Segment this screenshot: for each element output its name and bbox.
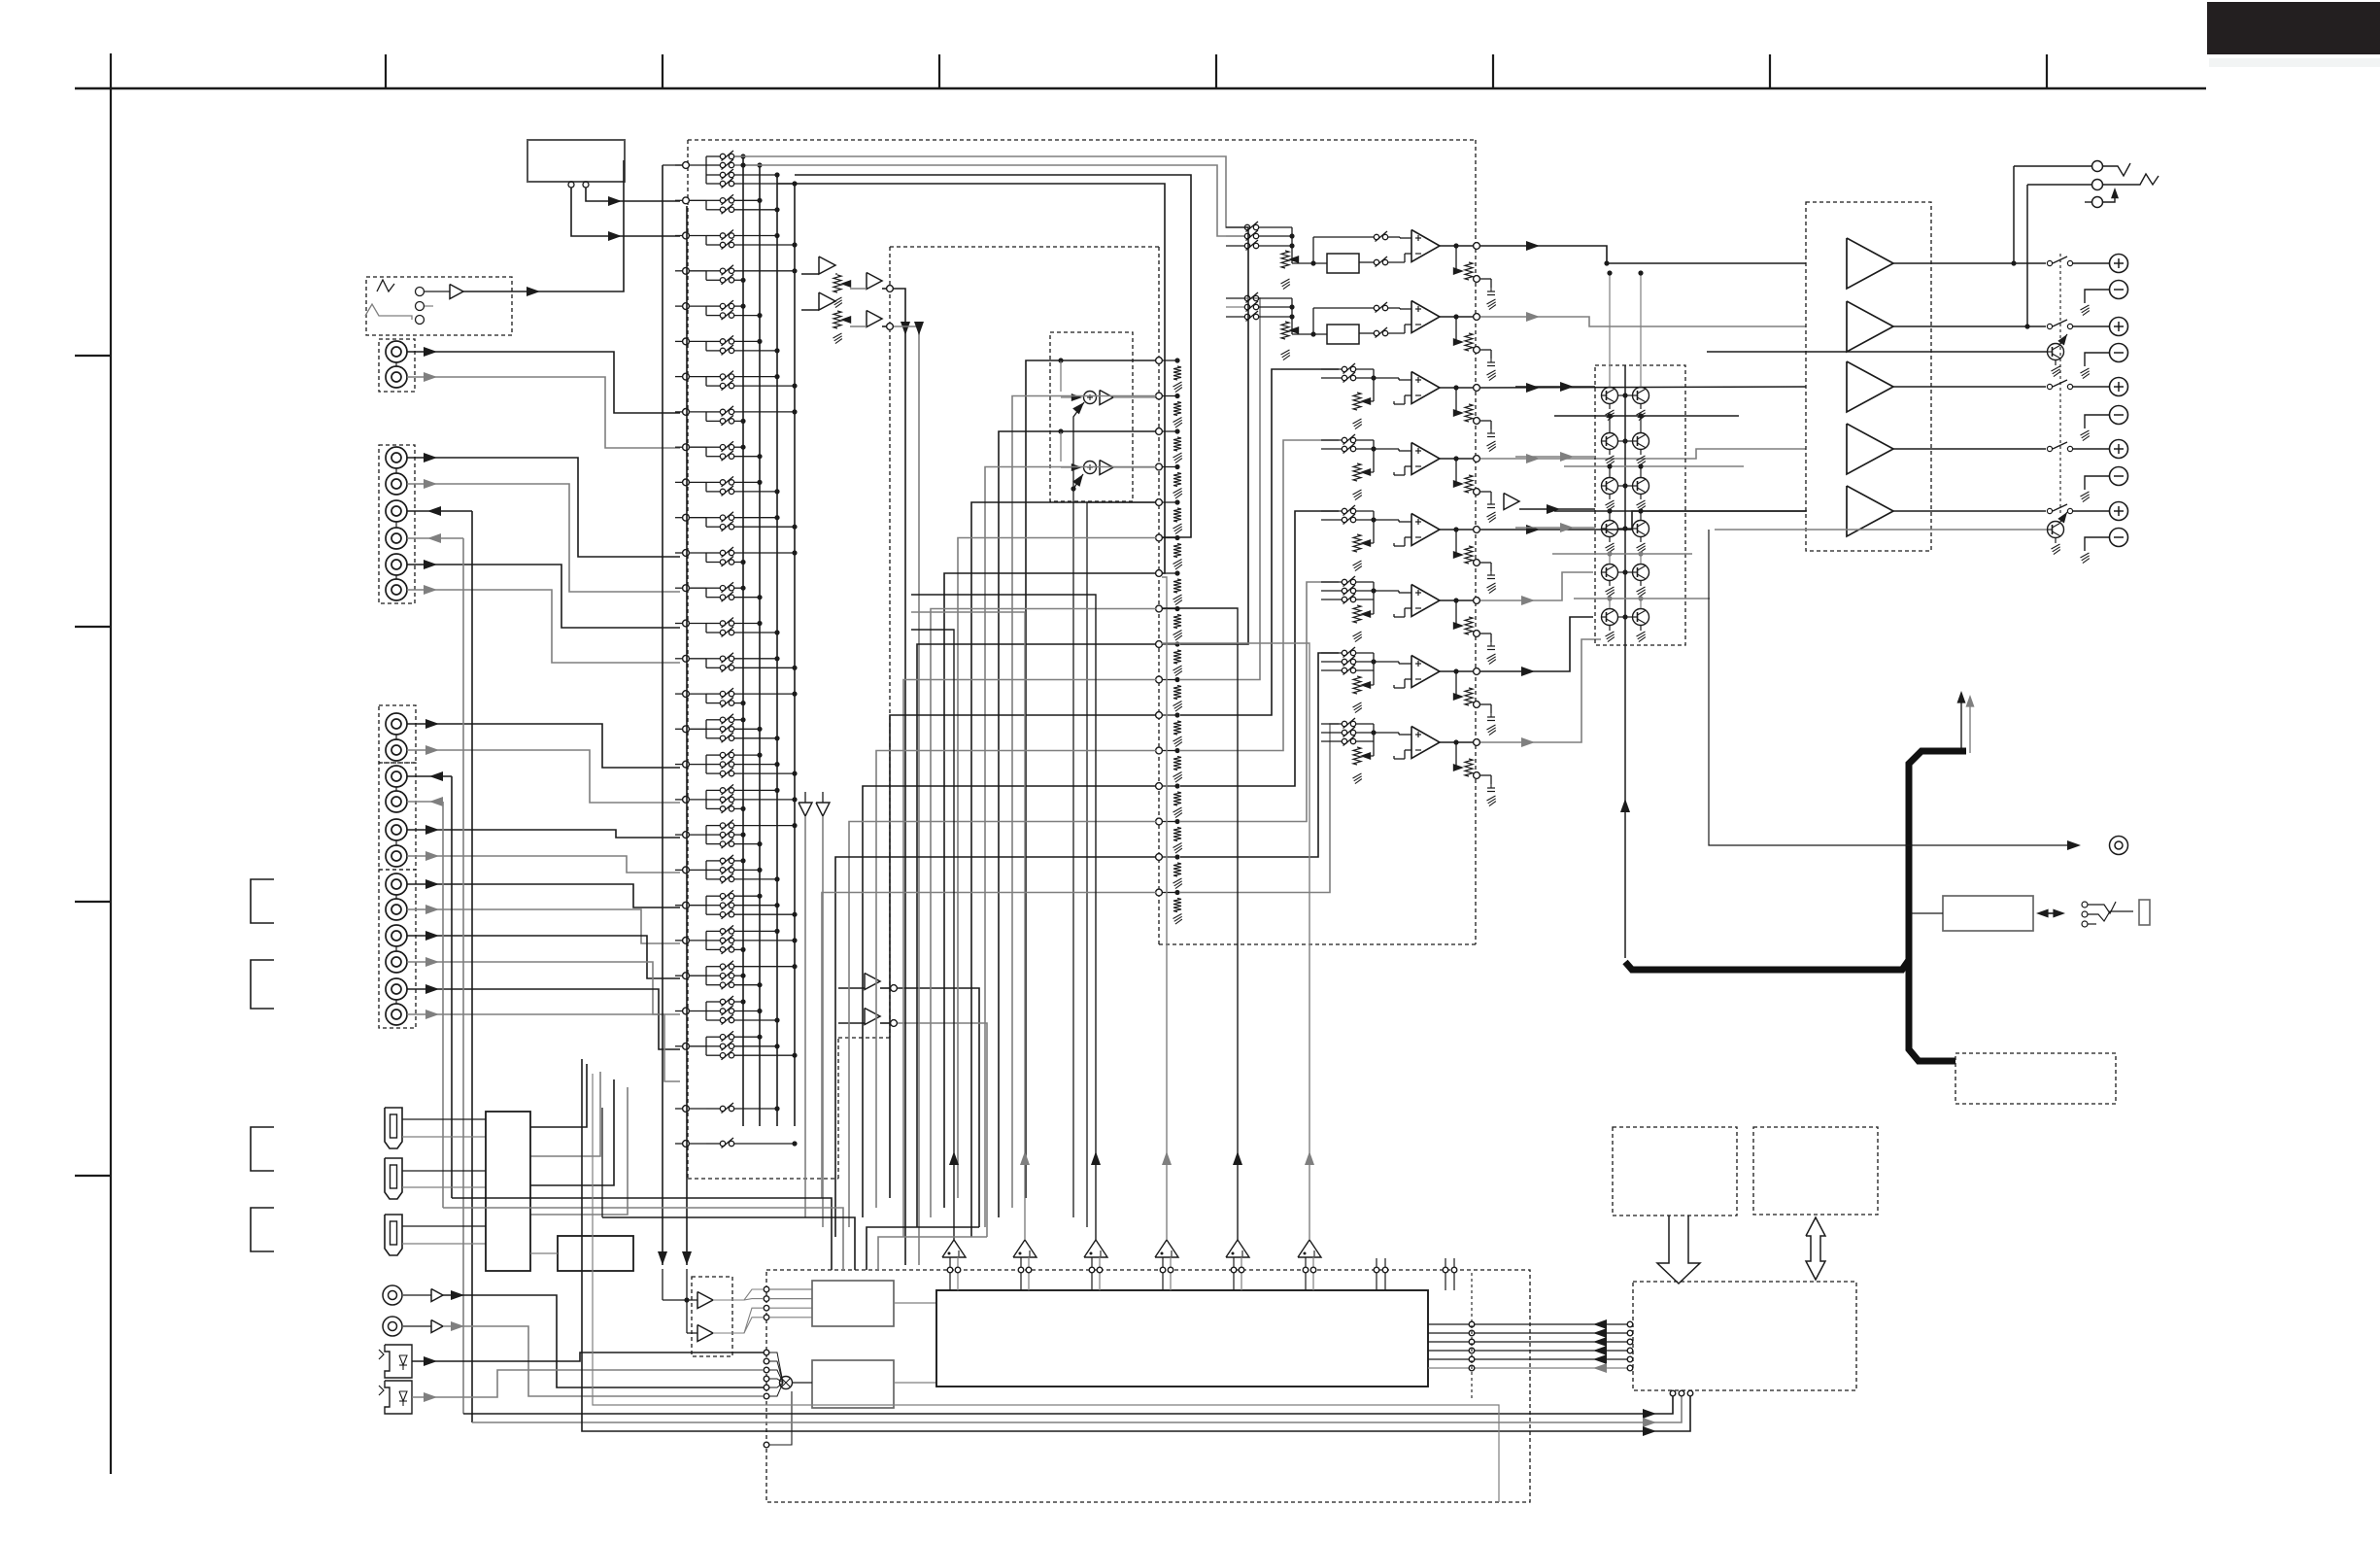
volume node 9	[1156, 641, 1163, 648]
dsp outer dashed box	[766, 1270, 1530, 1502]
selector switch row 18.3	[706, 772, 720, 774]
selector switch row 20.1	[706, 825, 720, 827]
volume node 5	[1156, 499, 1163, 506]
wire coax 1	[443, 1295, 764, 1387]
wire optical 2	[412, 1370, 764, 1397]
headphone feed pair	[1960, 694, 1962, 753]
op-amp U8 input switches	[1321, 723, 1342, 725]
phono input jacks	[379, 339, 415, 392]
tuner pin 2	[583, 182, 589, 188]
op-amp U8 output	[1440, 741, 1474, 743]
selector node row 11	[683, 514, 690, 521]
long control wire 1	[463, 1396, 1673, 1414]
selector switch row 8.2	[706, 420, 720, 422]
op-amp U7	[1411, 656, 1440, 688]
wire volume node 10 to opamp 2	[1180, 298, 1260, 680]
op-amp U6	[1411, 585, 1440, 617]
headphone jack contacts	[2082, 902, 2088, 907]
op-amp U4	[1411, 443, 1440, 475]
hollow arrow front panel to mcu	[1657, 1216, 1700, 1284]
selector switch row 1.4	[706, 183, 720, 185]
power amp A2 output	[1893, 325, 2046, 327]
selector switch row 21.2	[706, 869, 720, 871]
op-amp U7 feedback pot	[1455, 671, 1457, 697]
long control wire 2	[472, 1396, 1682, 1422]
muting transistor Q8	[1633, 521, 1649, 537]
selector switch row 2.2	[706, 209, 720, 211]
speaker minus ground 4	[2085, 476, 2109, 490]
optical input 1	[385, 1345, 412, 1378]
wire tape out R vertical	[462, 538, 464, 1414]
mute rail row 4b	[1552, 553, 1692, 555]
dac D6 output line	[1309, 1154, 1310, 1240]
op-amp U2 input pot	[1281, 322, 1289, 339]
selector switch row 20.3	[706, 843, 720, 845]
front panel dashed box	[1613, 1127, 1737, 1216]
subwoofer preout wire	[1709, 530, 2077, 845]
selector node row 9	[683, 444, 690, 451]
power amp A2	[1847, 301, 1893, 352]
op-amp U6 feedback pot	[1455, 600, 1457, 626]
wire adc to dsp	[894, 1302, 936, 1304]
mute stub Q6a	[1609, 599, 1611, 608]
selector switch row 1.3	[706, 174, 720, 176]
coax input jack 1	[383, 1285, 402, 1305]
selector switch row 22.1	[706, 895, 720, 897]
dac D4	[1155, 1240, 1178, 1257]
selector switch row 19.3	[706, 807, 720, 809]
selector switch row 1.2	[706, 164, 720, 166]
faint header text under banner	[2209, 58, 2380, 67]
bass tap R	[1058, 428, 1063, 433]
speaker A/B junction 1	[2011, 260, 2016, 265]
wire selector row1 line A	[734, 156, 1244, 227]
op-amp U3 feedback pot	[1455, 388, 1457, 413]
volume resistor 13	[1173, 792, 1181, 805]
mute stub Q3a	[1609, 466, 1611, 477]
op-amp U7 input pot	[1353, 676, 1361, 694]
selector switch row 18.1	[706, 754, 720, 756]
selector switch row 13.2	[706, 597, 720, 599]
volume resistor 8	[1173, 615, 1181, 629]
selector node row 12	[683, 550, 690, 557]
dac D4 output line	[1166, 1154, 1168, 1240]
volume node 4	[1156, 463, 1163, 470]
tuner block	[527, 140, 625, 182]
selector switch row 3.2	[706, 244, 720, 246]
hdmi repeater box	[558, 1236, 633, 1271]
wire selector bottom staircase 1	[530, 1064, 587, 1127]
top border tick marks	[385, 54, 387, 88]
mute stub Q3b	[1640, 466, 1642, 477]
selector switch row 9.2	[706, 456, 720, 458]
selector node row 2	[683, 197, 690, 204]
dac D3	[1084, 1240, 1107, 1257]
power amp A3 output	[1893, 386, 2046, 388]
op-amp U2 output	[1440, 316, 1474, 318]
dsp serial lines to mcu	[1428, 1323, 1627, 1325]
volume resistor 7	[1173, 579, 1181, 593]
subwoofer preout jack	[2110, 837, 2128, 855]
wire hdmi3 b	[402, 1243, 486, 1245]
op-amp U6 input switches	[1321, 581, 1342, 583]
wire U3 to amp3	[1480, 387, 1806, 388]
wire volume node 13 left	[863, 786, 1156, 1217]
hdmi connector 3	[385, 1215, 402, 1255]
wire tape out L to jack	[407, 510, 472, 512]
volume resistor 10	[1173, 686, 1181, 700]
selector switch row 25.1	[706, 1001, 720, 1003]
speaker select contact B	[2027, 184, 2091, 186]
selector switch row 4.1	[706, 270, 720, 272]
wire clock to dsp	[894, 1382, 936, 1384]
adc buffer dashed box	[692, 1277, 732, 1356]
mute stub Q5b	[1640, 554, 1642, 564]
muting transistor Q11	[1602, 609, 1618, 626]
source direct buffer 2	[819, 292, 835, 310]
mute stub Q4b	[1640, 511, 1642, 520]
wire input jack y772 to selector	[407, 750, 680, 803]
mute feed arrow 4	[1515, 527, 1595, 529]
wire tone feed R	[894, 326, 919, 1265]
volume node 11	[1156, 712, 1163, 719]
long control wire 3	[582, 1059, 1690, 1431]
selector node row 22	[683, 902, 690, 908]
post sum buffer 1	[1100, 391, 1113, 405]
input jack group 3	[379, 705, 416, 763]
mute gnd 1	[1609, 404, 1611, 410]
headphone bidirectional arrow	[2044, 912, 2057, 914]
volume resistor 16	[1173, 899, 1181, 912]
op-amp U4 output	[1440, 458, 1474, 460]
sum feed vertical	[1073, 402, 1084, 1217]
FM antenna symbol	[377, 280, 394, 291]
selector switch row 16.1	[706, 693, 720, 695]
mute feed arrow 1	[1515, 386, 1595, 388]
selector node row 25	[683, 1008, 690, 1014]
muting transistor Q6	[1633, 478, 1649, 495]
selector switch row 20.2	[706, 834, 720, 836]
op-amp U5 feedback pot	[1455, 530, 1457, 555]
page frame top border line	[75, 87, 2206, 90]
selector switch row 16.2	[706, 702, 720, 704]
speaker relay 3	[2047, 384, 2052, 389]
selector node row 15	[683, 655, 690, 662]
wire volume node 10 left	[903, 680, 1156, 1238]
muting transistor Q7	[1602, 521, 1618, 537]
selector switch row 25.3	[706, 1019, 720, 1021]
mute gnd 11	[1609, 626, 1611, 632]
volume node 2	[1156, 393, 1163, 399]
selector switch row 23.1	[706, 930, 720, 932]
hdmi connector 1	[385, 1108, 402, 1148]
protection transistor 1	[2048, 344, 2064, 360]
long status wire grey	[593, 1074, 1499, 1502]
volume node 8	[1156, 605, 1163, 612]
wire inverter feed	[804, 792, 806, 803]
wire U2 to amp2	[1480, 317, 1806, 326]
wire tape out R to jack	[407, 537, 463, 539]
adc buffer 1	[697, 1292, 713, 1309]
wire optical 1	[412, 1353, 764, 1361]
mute gnd 6	[1640, 495, 1642, 500]
muting transistor Q2	[1633, 388, 1649, 404]
volume ladder dashed line	[1158, 247, 1160, 944]
input selector matrix dashed box	[687, 140, 689, 1179]
speaker terminal 5 minus	[2110, 529, 2128, 547]
selector switch row 24.2	[706, 975, 720, 976]
wire volume node 15 left	[835, 857, 1156, 1237]
mute gnd 7	[1609, 537, 1611, 543]
wire selector row1 line D	[777, 184, 1165, 573]
mute stub Q4a	[1609, 511, 1611, 520]
selector node row 16	[683, 691, 690, 698]
wire input jack y936 to selector	[407, 909, 680, 943]
wire rec out R to jack	[407, 801, 443, 803]
dsp main box	[936, 1290, 1428, 1387]
selector switch row 28.1	[706, 1143, 720, 1145]
wire volume node 11 left	[890, 715, 1156, 1198]
AM antenna symbol	[365, 304, 412, 320]
wire input jack y963 to selector	[407, 936, 680, 978]
wire volume node 8 left	[931, 609, 1156, 1218]
wire bus to dsp buffer L	[662, 165, 663, 1265]
selector switch row 25.2	[706, 1010, 720, 1012]
wire U1 to amp1	[1480, 246, 1806, 263]
volume node 16	[1156, 889, 1163, 896]
selector switch row 27.1	[706, 1108, 720, 1110]
mcu dashed box	[1633, 1282, 1856, 1390]
selector switch row 3.1	[706, 235, 720, 237]
analog shield bracket 2	[251, 960, 274, 1009]
selector switch row 26.1	[706, 1036, 720, 1038]
volume resistor 14	[1173, 828, 1181, 841]
op-amp U1 input pot	[1281, 251, 1289, 268]
selector node row 5	[683, 303, 690, 310]
mute gnd 4	[1640, 450, 1642, 456]
selector node row 26	[683, 1043, 690, 1049]
selector switch row 7.2	[706, 385, 720, 387]
mute rail row 3	[1554, 510, 1807, 512]
mcu control dashed vertical	[1471, 1273, 1473, 1399]
volume node 12	[1156, 747, 1163, 754]
op-amp U4 feedback pot	[1455, 459, 1457, 484]
selector node row 23	[683, 938, 690, 944]
selector node row 10	[683, 479, 690, 486]
wire U7 out	[1480, 617, 1593, 671]
selector switch row 6.1	[706, 340, 720, 342]
wire volume node 4 left	[985, 467, 1156, 1228]
volume node 6	[1156, 534, 1163, 541]
selector bus line 4	[794, 184, 796, 1126]
selector switch row 22.2	[706, 905, 720, 907]
mute gnd 5	[1609, 495, 1611, 500]
selector node row 4	[683, 267, 690, 274]
volume resistor 2	[1173, 402, 1181, 416]
selector node row 19	[683, 797, 690, 804]
volume node 7	[1156, 570, 1163, 577]
wire volume node 5 left	[971, 502, 1156, 1237]
op-amp U1 output	[1440, 245, 1474, 247]
dsp spare pins	[1374, 1267, 1379, 1273]
power amp A1	[1847, 238, 1893, 289]
volume pot 2	[833, 311, 841, 328]
hdmi shield bracket 1	[251, 1127, 274, 1171]
wire volume node 16 left	[822, 893, 1156, 1199]
dac D2 output line	[1024, 1154, 1026, 1240]
selector node row 13	[683, 585, 690, 592]
bass tap L	[1058, 358, 1063, 362]
wire volume node 9 to opamp 1	[1180, 227, 1248, 644]
power amp A3	[1847, 361, 1893, 412]
op-amp U6 input pot	[1353, 605, 1361, 623]
speaker terminal 3 plus	[2110, 378, 2128, 396]
wire volume node 15 to opamp 7	[1180, 653, 1339, 857]
selector node row 20	[683, 832, 690, 839]
clock box	[812, 1360, 894, 1408]
record out buffer 1	[865, 974, 880, 990]
mute rail row 2	[1564, 465, 1744, 467]
selector switch row 2.1	[706, 199, 720, 201]
mute gnd 8	[1640, 537, 1642, 543]
speaker relay 1	[2047, 260, 2052, 265]
volume resistor 4	[1173, 473, 1181, 487]
mute stub Q1b	[1640, 273, 1642, 387]
wire selector row1 line B	[734, 165, 1244, 236]
wire hdmi2 b	[402, 1186, 486, 1188]
wire hdmi2 a	[402, 1170, 486, 1172]
selector switch row 8.1	[706, 411, 720, 413]
op-amp U2 feedback resistor	[1327, 325, 1359, 344]
speaker A/B junction 2	[2024, 324, 2029, 328]
speaker terminal 4 minus	[2110, 467, 2128, 486]
selector node row 7	[683, 373, 690, 380]
selector node row 18	[683, 761, 690, 768]
op-amp U3 input switches	[1321, 368, 1342, 370]
selector switch row 13.1	[706, 587, 720, 589]
selector bus line 2	[759, 165, 761, 1126]
op-amp U3	[1411, 372, 1440, 404]
op-amp U2 feedback switches	[1374, 305, 1378, 310]
wire rec out L vertical	[451, 776, 453, 1198]
selector switch row 11.2	[706, 526, 720, 528]
wire tuner L out	[586, 188, 680, 201]
inverter pair	[799, 803, 812, 816]
wire volume node 12 to opamp 4	[1180, 440, 1339, 751]
wire volume node 6 left	[958, 538, 1156, 1199]
tone buffer 1	[867, 273, 882, 290]
selector switch row 24.3	[706, 984, 720, 986]
selector switch row 7.1	[706, 376, 720, 378]
wire tone feed L	[894, 289, 905, 1265]
wire volume node 14 left	[849, 822, 1156, 1228]
volume resistor 9	[1173, 650, 1181, 664]
selector switch row 17.3	[706, 737, 720, 739]
op-amp U3 output	[1440, 387, 1474, 389]
wire volume node 13 to opamp 5	[1180, 511, 1339, 786]
wire record out 1	[898, 988, 979, 1227]
adc box	[812, 1281, 894, 1326]
op-amp U8 input pot	[1353, 747, 1361, 765]
tuner pin 1	[568, 182, 574, 188]
wire input jack y854 to selector	[407, 830, 680, 838]
headphone jack symbol	[2088, 902, 2116, 913]
muting transistor Q5	[1602, 478, 1618, 495]
mixer circle	[780, 1377, 793, 1389]
video dashed box	[1955, 1053, 2116, 1104]
power amplifier dashed box	[1806, 202, 1931, 551]
op-amp U2 input switches	[1226, 297, 1244, 299]
volume resistor 15	[1173, 863, 1181, 876]
bass management dashed box	[1050, 332, 1133, 501]
wire input jack y1044 to selector	[407, 1014, 680, 1081]
selector switch row 18.2	[706, 764, 720, 766]
hdmi connector 2	[385, 1158, 402, 1199]
wire volume node 9 left	[917, 644, 1156, 1227]
mute stub Q6b	[1640, 599, 1642, 608]
tone control dashed box	[889, 247, 891, 1038]
wire volume node 1 left	[1026, 360, 1156, 1198]
op-amp U3 input pot	[1353, 393, 1361, 410]
wire hdmi1 a	[402, 1118, 486, 1120]
speaker select contact C	[2085, 201, 2091, 203]
op-amp U1 feedback switches	[1374, 234, 1378, 239]
selector switch row 5.1	[706, 305, 720, 307]
antenna buffer	[450, 285, 463, 299]
speaker minus ground 2	[2085, 353, 2109, 366]
optical input 2	[385, 1381, 412, 1414]
hdmi switch box	[486, 1112, 530, 1271]
selector switch row 19.1	[706, 789, 720, 791]
volume node 15	[1156, 854, 1163, 861]
power amp A1 output	[1893, 262, 2046, 264]
speaker select contact A	[2014, 165, 2091, 167]
sum arrow 2	[1071, 486, 1075, 491]
op-amp U1 feedback resistor	[1327, 254, 1359, 273]
mute gnd 12	[1640, 626, 1642, 632]
left border tick marks	[75, 355, 111, 357]
wire U5 to amp5	[1480, 511, 1806, 530]
selector node row 3	[683, 232, 690, 239]
selector node row 17	[683, 726, 690, 733]
speaker terminal 4 plus	[2110, 440, 2128, 459]
coax buffer 1	[431, 1289, 443, 1302]
speaker terminal 1 minus	[2110, 281, 2128, 299]
speaker terminal 2 plus	[2110, 318, 2128, 336]
speaker relay 2	[2047, 324, 2052, 328]
mute gnd 3	[1609, 450, 1611, 456]
mute rail	[1624, 365, 1626, 958]
adc circles	[764, 1286, 769, 1292]
wire coax 2	[443, 1326, 764, 1396]
selector switch row 9.1	[706, 446, 720, 448]
selector switch row 21.1	[706, 860, 720, 862]
volume resistor 5	[1173, 508, 1181, 522]
op-amp U6 output	[1440, 599, 1474, 601]
thick signal cable	[1625, 751, 1966, 970]
op-amp U4 input pot	[1353, 463, 1361, 481]
FM/AM antenna block	[366, 277, 512, 335]
selector switch row 15.2	[706, 667, 720, 668]
wire input jack y881 to selector	[407, 856, 680, 873]
spdif select circle	[764, 1442, 769, 1448]
selector switch row 17.2	[706, 728, 720, 730]
tone buffer 2	[867, 311, 882, 327]
selector node row 28	[683, 1141, 690, 1147]
mute rail row 5	[1574, 598, 1710, 599]
wire tuner R out	[571, 188, 680, 236]
selector switch row 26.3	[706, 1054, 720, 1056]
